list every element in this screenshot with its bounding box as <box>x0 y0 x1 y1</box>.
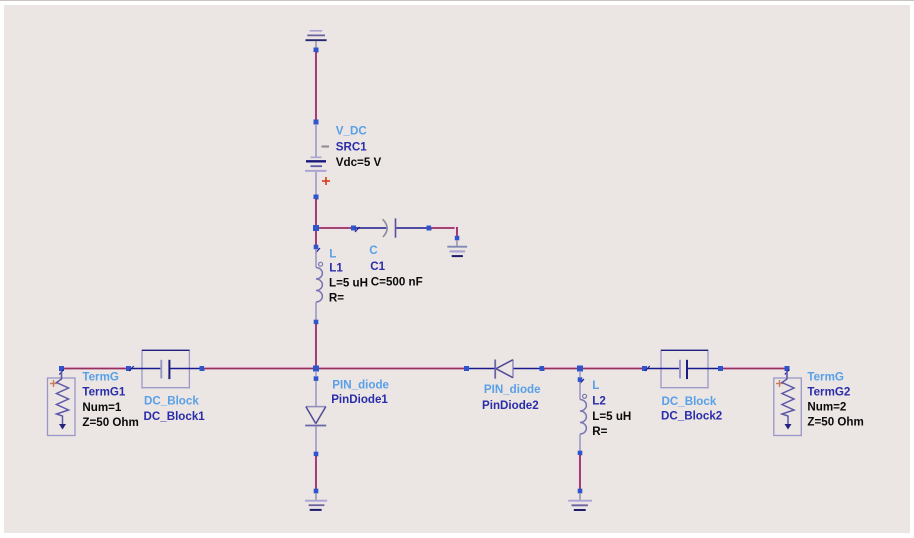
node: L2 pin1 <box>578 377 583 382</box>
DC_Block2 labels <box>661 395 722 422</box>
svg-text:L=5 uH: L=5 uH <box>329 277 368 290</box>
ground G4 (below L2) <box>568 493 592 510</box>
diode PinDiode1 (vertical) <box>305 381 326 452</box>
svg-text:TermG2: TermG2 <box>807 386 850 399</box>
ground G3 (below PinDiode1) <box>305 493 327 510</box>
main junction node B <box>313 366 319 372</box>
svg-text:DC_Block: DC_Block <box>662 395 717 408</box>
junction node C <box>577 366 583 372</box>
wire L1 to main junction <box>314 324 316 366</box>
capacitor C1 <box>356 218 428 237</box>
node: PinDiode2 pin1 <box>464 366 469 371</box>
node: L1 pin2 <box>314 320 319 325</box>
node: PinDiode2 pin2 <box>540 366 545 371</box>
wire C1 to ground G2 <box>431 226 457 236</box>
lead junction C to L2 <box>579 371 581 377</box>
L1 pin1 tick <box>316 248 321 253</box>
node: TermG2 pin <box>785 366 790 371</box>
wire DC_Block2 to TermG2 <box>723 367 785 369</box>
svg-text:Num=1: Num=1 <box>82 401 122 414</box>
svg-text:DC_Block1: DC_Block1 <box>144 410 206 423</box>
svg-text:C1: C1 <box>370 260 385 273</box>
svg-text:L2: L2 <box>592 395 606 408</box>
C1 pin1 tick <box>355 227 360 232</box>
svg-text:SRC1: SRC1 <box>336 140 367 153</box>
svg-text:PIN_diode: PIN_diode <box>484 383 541 396</box>
wire PinDiode2 to junction C <box>544 367 578 369</box>
node: C1 pin2 <box>427 226 432 231</box>
node: PinDiode1 anode pin <box>314 376 319 381</box>
svg-text:Vdc=5 V: Vdc=5 V <box>336 156 382 169</box>
svg-text:DC_Block: DC_Block <box>144 395 199 408</box>
lead junction B to PinDiode1 <box>315 371 317 376</box>
voltage source U SRC1 (V_DC battery) <box>305 124 327 195</box>
wire PinDiode1 to ground G3 <box>314 456 316 489</box>
DC_Block1 labels <box>144 395 206 423</box>
svg-text:TermG: TermG <box>82 371 119 384</box>
DC block DC_Block2 <box>647 350 719 387</box>
wire L2 to ground G4 <box>578 455 580 489</box>
svg-text:PinDiode1: PinDiode1 <box>331 393 388 406</box>
terminal TermG2 <box>774 371 802 436</box>
svg-text:Num=2: Num=2 <box>807 401 846 414</box>
L2 pin1 tick <box>580 379 585 384</box>
node: DC_Block2 pin1 <box>642 366 647 371</box>
SRC1 minus polarity mark <box>322 146 330 148</box>
wire junction to C1 <box>319 226 352 228</box>
wire SRC1 to junction <box>314 199 316 226</box>
L2 labels <box>592 379 631 438</box>
svg-text:L1: L1 <box>329 262 343 275</box>
ground G1 (top, flipped) <box>306 31 327 48</box>
ground G2 (right of C1) <box>447 240 467 256</box>
node: TermG1 pin <box>59 366 64 371</box>
node: DC_Block2 pin2 <box>718 366 723 371</box>
SRC1 labels <box>336 125 382 170</box>
node: ground G4 pin <box>578 489 583 494</box>
L1 labels <box>329 248 368 305</box>
svg-text:TermG: TermG <box>807 370 844 383</box>
DC block DC_Block1 <box>131 350 200 387</box>
terminal TermG1 <box>48 371 76 436</box>
node: PinDiode1 cathode pin <box>314 452 319 457</box>
wire top ground to SRC1 <box>314 52 316 121</box>
node: L1 pin1 <box>314 245 319 250</box>
svg-text:L=5 uH: L=5 uH <box>592 410 631 423</box>
TermG1 labels <box>82 371 138 430</box>
TermG2 labels <box>807 370 863 428</box>
C1 labels <box>369 244 422 289</box>
node: SRC1 plus pin <box>314 120 319 125</box>
node: C1 pin1 <box>351 226 356 231</box>
wire TermG1 to DC_Block1 <box>64 367 127 369</box>
TermG2 pin tick <box>785 370 790 375</box>
junction node A <box>313 225 319 231</box>
wire DC_Block1 to main junction <box>204 367 314 369</box>
svg-text:DC_Block2: DC_Block2 <box>661 410 722 423</box>
DC_Block2 pin1 tick <box>645 366 650 371</box>
wire main junction to PinDiode2 <box>319 367 465 369</box>
node: SRC1 minus pin <box>314 195 319 200</box>
SRC1 plus polarity mark <box>322 177 330 185</box>
svg-text:R=: R= <box>329 291 344 304</box>
DC_Block1 pin1 tick <box>129 366 134 371</box>
node: DC_Block1 pin2 <box>200 366 205 371</box>
node: DC_Block1 pin1 <box>126 366 131 371</box>
node: top ground pin <box>314 48 319 53</box>
node: ground G3 pin <box>314 489 319 494</box>
svg-text:PinDiode2: PinDiode2 <box>482 399 539 412</box>
inductor L1 <box>316 249 323 320</box>
node: L2 pin2 <box>578 451 583 456</box>
wire junction C to DC_Block2 <box>583 367 643 369</box>
wire junction to L1 <box>314 231 316 245</box>
svg-text:PIN_diode: PIN_diode <box>332 379 389 392</box>
PinDiode2 labels <box>482 383 541 412</box>
svg-text:C=500 nF: C=500 nF <box>371 275 423 288</box>
svg-text:L: L <box>592 379 599 392</box>
svg-text:L: L <box>329 248 336 261</box>
PinDiode1 labels <box>331 379 389 406</box>
svg-text:TermG1: TermG1 <box>82 386 126 399</box>
svg-text:C: C <box>369 244 378 257</box>
diode PinDiode2 (horizontal) <box>469 360 540 379</box>
svg-text:Z=50 Ohm: Z=50 Ohm <box>82 416 138 429</box>
svg-text:V_DC: V_DC <box>336 125 368 138</box>
svg-text:R=: R= <box>592 425 607 438</box>
inductor L2 <box>580 382 587 451</box>
node: ground G2 pin <box>455 236 460 241</box>
svg-text:Z=50 Ohm: Z=50 Ohm <box>807 416 863 429</box>
TermG1 pin tick <box>59 370 64 375</box>
